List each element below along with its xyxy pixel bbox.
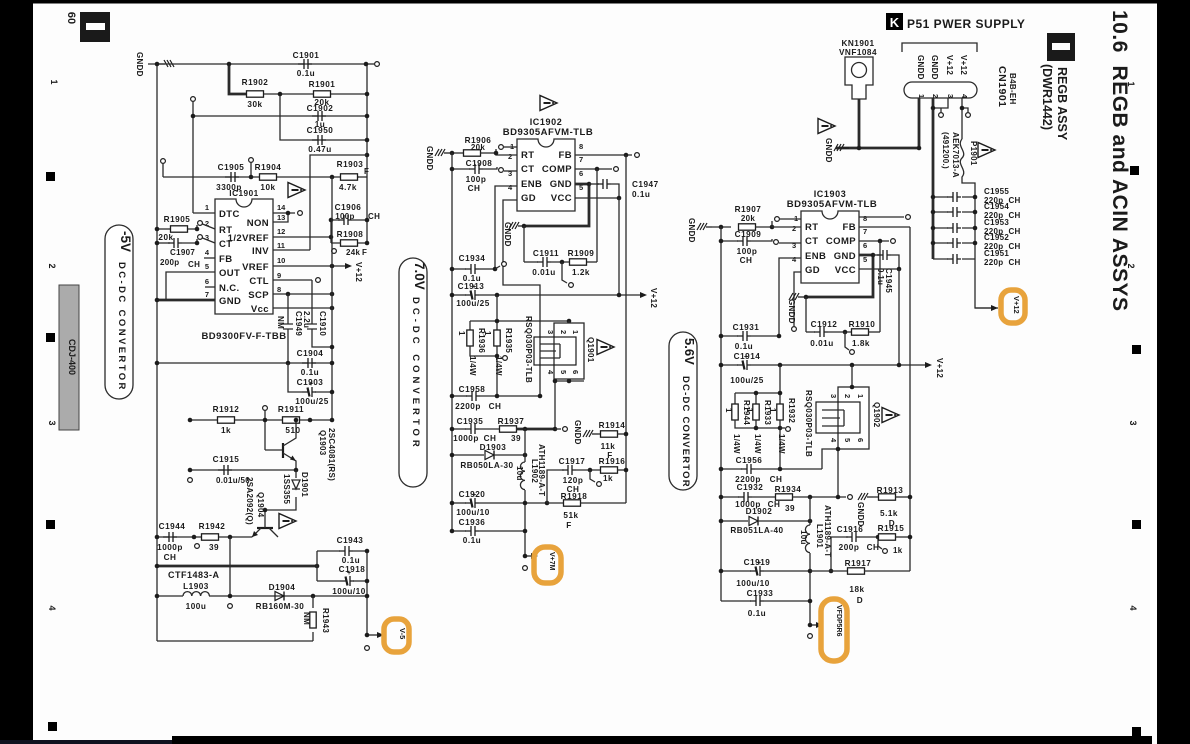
svg-text:L1901: L1901 [815,524,824,548]
svg-text:10k: 10k [260,183,275,192]
bottom black bar main [172,736,1152,744]
svg-text:1: 1 [205,203,209,212]
svg-text:IC1901: IC1901 [229,189,258,198]
svg-text:R1913: R1913 [877,486,904,495]
svg-text:VCC: VCC [835,265,856,276]
svg-text:R1902: R1902 [242,78,269,87]
svg-text:6: 6 [571,370,580,374]
svg-text:VREF: VREF [242,262,269,273]
svg-text:10.6 REGB and ACIN ASSYS: 10.6 REGB and ACIN ASSYS [1108,10,1131,312]
junction dots left rail [155,227,160,232]
wire ENB pin4 [495,186,517,269]
svg-text:1k: 1k [221,426,231,435]
capacitor C1949 vertical [283,294,293,363]
ground symbol [159,60,174,67]
resistor R1942 [202,534,219,540]
ground symbol R1907 [697,223,712,230]
wire R1903 to rail [358,176,367,178]
test hook C1916/R1915 [878,537,882,549]
svg-text:V+12: V+12 [649,288,658,308]
ground symbol GND node [509,222,524,229]
resistor R1902 [247,91,264,97]
svg-text:FB: FB [219,254,232,265]
svg-text:8: 8 [277,285,281,294]
wire FB pin7 [575,154,632,156]
svg-text:5.6V: 5.6V [682,338,697,365]
svg-text:C1932: C1932 [737,483,764,492]
svg-text:R1917: R1917 [845,559,872,568]
warning triangle near connector ground [818,119,835,134]
wire C1907 to CT hook [182,237,215,243]
svg-text:R1918: R1918 [561,492,588,501]
wire resistor pair top row [470,295,569,330]
svg-text:100u/25: 100u/25 [730,376,764,385]
svg-text:C1914: C1914 [734,352,761,361]
test hook C1917/R1916 [590,470,595,482]
wire VFDP5R6 arrow [810,624,819,626]
svg-text:1/4W: 1/4W [732,434,741,454]
svg-text:CTL: CTL [249,276,269,287]
wire FB pin7 [859,226,910,228]
svg-text:1k: 1k [893,546,903,555]
wire COMP to R1910 [879,241,881,332]
svg-text:7: 7 [579,155,583,164]
node VFDP5R6 highlighted oval [821,599,847,661]
wire R1905 to RT hook [188,223,215,229]
svg-text:100u: 100u [186,602,207,611]
svg-text:C1902: C1902 [307,104,334,113]
svg-text:0.01u: 0.01u [532,268,555,277]
svg-text:2SC4081(RS): 2SC4081(RS) [327,428,336,481]
resistor R1916 [601,467,618,473]
svg-text:CH: CH [484,434,497,443]
wire CN1901 pin3 jog [933,98,948,108]
terminal top right [375,62,380,67]
wire right rail bottom [366,551,368,635]
wire emitter down [229,537,231,596]
resistor R1932 [777,404,783,420]
junction dots cap bank right rail [973,195,978,200]
svg-text:CH: CH [188,260,200,269]
svg-text:VNF1084: VNF1084 [839,48,877,57]
svg-text:C1950: C1950 [307,126,334,135]
capacitor C1943 [339,546,353,556]
wire Q1902 drain [851,365,853,387]
svg-text:DC-DC CONVERTOR: DC-DC CONVERTOR [680,376,691,488]
svg-text:CH: CH [468,184,481,193]
svg-text:C1907: C1907 [170,248,195,257]
svg-text:3: 3 [546,330,555,334]
svg-text:NM: NM [276,316,285,329]
svg-text:R1943: R1943 [321,608,330,633]
left margin black bar [0,0,33,744]
svg-text:C1951: C1951 [984,249,1009,258]
wire NON pins 13/14 [273,213,295,222]
svg-text:V+12: V+12 [1012,296,1021,314]
section icon top-left (black square with white dash) [80,12,110,42]
wire bottom row [157,640,313,642]
right edge tick squares [1130,166,1139,175]
svg-text:CN1901: CN1901 [996,66,1008,108]
svg-text:C1952: C1952 [984,233,1009,242]
svg-text:8: 8 [863,214,867,223]
resistor R1906 [450,152,463,154]
svg-text:39: 39 [785,504,795,513]
svg-text:C1909: C1909 [735,230,762,239]
svg-text:FB: FB [843,222,856,233]
svg-text:IC1902: IC1902 [530,117,563,127]
svg-text:CH: CH [489,402,502,411]
capacitor C1918 electrolytic [340,570,354,586]
svg-text:BD9305AFVM-TLB: BD9305AFVM-TLB [503,127,593,138]
svg-text:GND: GND [550,179,572,190]
svg-text:0.1u: 0.1u [748,609,766,618]
top black rule [33,0,1157,4]
svg-text:1: 1 [571,330,580,334]
svg-text:4: 4 [1128,605,1138,610]
svg-text:C1919: C1919 [744,558,771,567]
wire GD [503,200,540,396]
svg-text:C1933: C1933 [747,589,774,598]
svg-text:2: 2 [792,224,796,233]
svg-text:C1911: C1911 [533,249,559,258]
svg-text:1: 1 [856,394,865,398]
svg-text:200p: 200p [839,543,860,552]
wire COMP to R1909 [596,169,598,262]
test hook C1934 [495,266,500,269]
svg-text:1: 1 [724,408,733,413]
svg-text:C1903: C1903 [297,378,324,387]
svg-text:2.2u: 2.2u [302,311,311,328]
resistor R1936 [467,330,473,346]
svg-text:10: 10 [277,256,285,265]
capacitor C1901 [298,59,312,69]
svg-text:B4B-EH: B4B-EH [1008,73,1017,105]
svg-text:V+12: V+12 [354,262,363,282]
svg-text:C1905: C1905 [218,163,245,172]
ground symbol GND node [789,293,804,300]
svg-text:GNDD: GNDD [135,52,144,77]
svg-text:2: 2 [508,152,512,161]
svg-text:Q1901: Q1901 [586,337,595,363]
wire left rail [720,227,722,601]
capacitor C1954 [933,211,975,213]
svg-text:ATH1189-A-T: ATH1189-A-T [537,444,546,497]
svg-text:C1956: C1956 [736,456,763,465]
svg-text:INV: INV [252,246,269,257]
wire RT pin2 [772,226,801,228]
svg-text:6: 6 [863,241,867,250]
cap bank right rail [975,197,998,308]
wire Q1902 source/gate bottom [822,449,838,497]
svg-text:3: 3 [829,394,838,398]
svg-text:C1936: C1936 [459,518,486,527]
connector P1901 squiggle [960,139,975,197]
svg-text:100p: 100p [737,247,758,256]
node V-5 highlighted oval [384,619,409,652]
wire resistor trio top row [735,365,780,404]
svg-text:100p: 100p [466,175,487,184]
svg-text:GD: GD [805,265,820,276]
transistor Q1901 package [554,323,584,379]
wire V+7M arrow [525,555,534,557]
svg-text:4: 4 [47,605,57,610]
svg-text:1/4W: 1/4W [753,434,762,454]
svg-text:R1903: R1903 [337,160,364,169]
capacitor C1951 [933,258,975,260]
resistor R1917 [810,570,848,572]
svg-text:6: 6 [205,277,209,286]
svg-text:RT: RT [805,222,818,233]
svg-text:RSQ030P03-TLB: RSQ030P03-TLB [804,390,813,457]
resistor R1904 [260,174,277,180]
svg-text:VFDP5R6: VFDP5R6 [835,605,842,637]
wire INV feedback [310,155,367,250]
svg-text:5.1k: 5.1k [880,509,898,518]
svg-text:F: F [566,521,572,530]
svg-text:C1953: C1953 [984,218,1009,227]
svg-text:L1903: L1903 [183,582,209,591]
svg-text:100u/10: 100u/10 [736,579,770,588]
resistor R1933 [753,404,759,420]
svg-text:V+12: V+12 [945,55,954,75]
wire feedback row y177 [163,176,359,178]
svg-text:20k: 20k [741,214,755,223]
transistor Q1902 package [838,387,869,449]
svg-text:R1937: R1937 [498,417,525,426]
svg-text:DC-DC CONVERTOR: DC-DC CONVERTOR [116,262,127,392]
svg-text:REGB ASSY: REGB ASSY [1055,67,1069,141]
capacitor C1955 [933,196,975,198]
svg-text:1/4W: 1/4W [777,434,786,454]
wire SCP pin8 [273,293,332,295]
svg-text:1.8k: 1.8k [852,339,870,348]
wire GNDD node to C1911 [523,226,525,262]
svg-text:V+12: V+12 [959,55,968,75]
wire C1950 row [280,94,367,140]
wire rail mid [331,177,333,420]
svg-text:0.1u: 0.1u [632,190,650,199]
svg-text:RSQ030P03-TLB: RSQ030P03-TLB [524,316,533,383]
diode D1904 [275,592,284,601]
wire right rail [366,64,368,243]
K reference box [886,13,903,30]
svg-text:0.47u: 0.47u [308,145,331,154]
svg-text:D: D [857,596,863,605]
wire OUT pin5 [166,272,215,300]
svg-text:1: 1 [49,79,59,84]
capacitor C1909 [721,240,738,242]
svg-text:14: 14 [277,203,286,212]
capacitor C1947 [589,183,599,185]
svg-text:D1901: D1901 [300,472,309,497]
svg-text:C1949: C1949 [294,311,303,336]
resistor R1907 [712,226,731,228]
wire 1/2VREF pin12 [273,236,331,238]
svg-text:30k: 30k [247,100,262,109]
wire CN1901 pin4 down [961,98,963,139]
wire DTC pin1 [193,212,215,214]
warning triangle P1901 [978,143,995,158]
svg-text:R1915: R1915 [878,524,905,533]
svg-text:VCC: VCC [551,193,572,204]
wire left rail [451,153,453,531]
wire R1912 row [190,419,332,421]
svg-text:7: 7 [205,290,209,299]
svg-text:13: 13 [277,213,285,222]
svg-text:7: 7 [863,227,867,236]
terminal left of C1905 [161,159,166,164]
pin3 test hook [940,108,942,112]
test hook under C1911 [562,262,567,283]
svg-text:CH: CH [770,475,783,484]
capacitor C1935 [452,428,466,430]
transistor Q1904 [257,527,273,529]
svg-text:0.1u: 0.1u [297,69,315,78]
svg-text:C1955: C1955 [984,187,1009,196]
svg-text:DC-DC CONVERTOR: DC-DC CONVERTOR [410,297,421,451]
svg-text:GNDD: GNDD [425,146,434,171]
capacitor C1906 [331,219,367,221]
svg-text:C1920: C1920 [459,490,486,499]
wire COMP pin6 [575,168,612,170]
svg-text:24k: 24k [346,248,360,257]
svg-text:V+7M: V+7M [548,552,555,571]
svg-text:GD: GD [521,193,536,204]
svg-text:OUT: OUT [219,268,240,279]
svg-text:R1910: R1910 [849,320,876,329]
svg-text:CT: CT [805,236,818,247]
svg-text:C1944: C1944 [159,522,186,531]
wire R1901 to rail [331,93,367,95]
wire V+12 row [479,294,643,296]
svg-text:K: K [890,15,900,30]
svg-text:C1904: C1904 [297,349,324,358]
svg-text:NM: NM [302,612,311,625]
resistor R1915 [879,534,896,540]
svg-text:1/2VREF: 1/2VREF [228,233,269,244]
wire GD [794,272,801,326]
wire KN1901 to ground rail [858,99,861,148]
ground symbol R1913 [858,493,873,500]
svg-text:FB: FB [559,150,572,161]
hook to pin1 [495,149,497,153]
junction pin2/pin3 jog [931,106,936,111]
resistor R1905 [157,228,171,230]
svg-text:D1903: D1903 [480,443,507,452]
resistor R1914 [598,433,601,435]
capacitor C1917 [547,470,564,503]
svg-text:R1914: R1914 [599,421,626,430]
svg-text:(491200.): (491200.) [941,132,950,169]
svg-text:R1942: R1942 [199,522,226,531]
capacitor C1916 [831,537,848,571]
resistor R1943 vertical [312,596,314,641]
wire Vcc [273,307,332,309]
CDJ-400 gray side bar [59,285,79,430]
svg-text:CH: CH [368,212,380,221]
wire C1915 row [190,469,296,471]
capacitor C1950 [312,135,326,145]
svg-text:GNDD: GNDD [856,502,865,527]
node -5V converter stadium label [105,225,133,399]
inductor L1902 vertical [524,429,526,462]
svg-text:200p: 200p [160,258,179,267]
svg-text:C1916: C1916 [837,525,864,534]
svg-text:1SS355: 1SS355 [282,474,291,505]
svg-text:6: 6 [856,438,865,442]
wire V-5 arrow [367,634,381,636]
svg-text:Q1902: Q1902 [872,402,881,428]
resistor R1911 [283,417,300,423]
svg-text:C1912: C1912 [811,320,838,329]
svg-text:V-5: V-5 [398,628,407,639]
svg-text:C1934: C1934 [459,254,486,263]
svg-text:GNDD: GNDD [573,420,582,445]
svg-text:510: 510 [285,426,300,435]
svg-text:C1958: C1958 [459,385,486,394]
svg-text:DTC: DTC [219,209,240,220]
ground wire GNDD [836,147,919,150]
svg-text:D1902: D1902 [746,507,773,516]
svg-text:N.C.: N.C. [219,283,240,294]
svg-text:11k: 11k [601,442,616,451]
svg-text:1k: 1k [603,474,613,483]
wire C1943/C1918 block [317,551,367,581]
wire VCC [859,268,899,270]
svg-text:Vcc: Vcc [251,304,269,315]
wire resistor trio bottom row [735,420,780,469]
svg-text:60: 60 [65,12,77,24]
capacitor C1910 vertical [307,280,332,347]
svg-text:GNDD: GNDD [687,218,696,243]
svg-text:AEK7013-A: AEK7013-A [951,132,960,178]
inductor L1901 vertical [809,497,811,525]
wire resistor pair bottom row [470,346,497,396]
resistor R1935 [494,330,500,346]
inductor L1903 [157,595,183,597]
capacitor C1919 electrolytic [721,570,751,572]
svg-text:51k: 51k [563,511,578,520]
svg-text:RT: RT [521,150,534,161]
svg-text:9: 9 [277,271,281,280]
svg-text:ENB: ENB [521,179,542,190]
svg-text:COMP: COMP [542,164,572,175]
svg-text:4.7k: 4.7k [339,183,357,192]
svg-text:R1912: R1912 [213,405,240,414]
svg-text:2200p: 2200p [455,402,481,411]
wire RT pin2 [496,153,517,155]
wire VCC [575,197,619,199]
diode D1902 [721,520,748,522]
svg-text:0.01u: 0.01u [810,339,833,348]
svg-text:GND: GND [219,296,241,307]
svg-text:120p: 120p [563,476,584,485]
svg-text:1: 1 [457,331,466,336]
node V+7M highlighted oval [534,547,561,583]
capacitor C1953 [933,227,975,229]
svg-text:39: 39 [511,434,521,443]
connector CN1901 body [904,82,977,98]
capacitor C1952 [933,242,975,244]
svg-text:C1954: C1954 [984,202,1009,211]
svg-text:1: 1 [745,408,754,413]
svg-text:8: 8 [579,142,583,151]
svg-text:COMP: COMP [826,236,856,247]
svg-text:1: 1 [768,408,777,413]
capacitor C1934 [452,268,466,270]
resistor R1903 [341,174,358,180]
